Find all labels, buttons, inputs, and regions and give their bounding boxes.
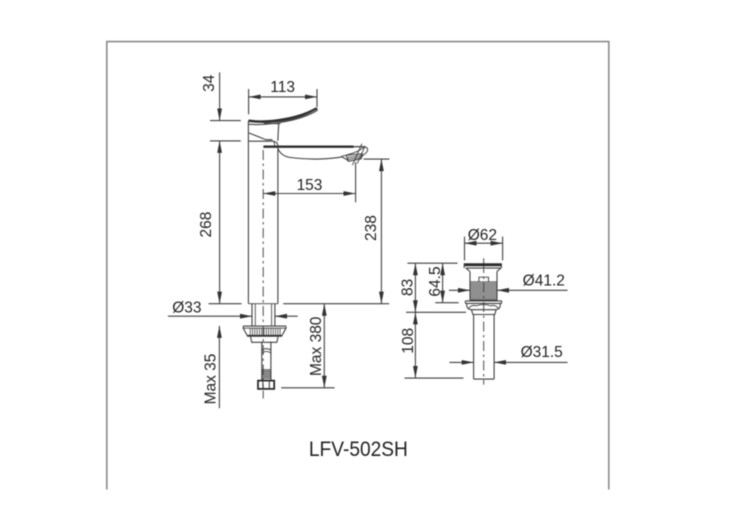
svg-text:Max 35: Max 35 [202, 354, 219, 405]
spout aerator [342, 144, 366, 166]
dimension Max 35 [218, 326, 220, 408]
drain top flange lid [464, 263, 502, 271]
dimension D31.5 [449, 361, 567, 363]
dimension D33 [168, 315, 298, 317]
mounting flange washer [243, 326, 286, 336]
dimension 64.5 [435, 263, 459, 302]
svg-text:83: 83 [400, 279, 417, 296]
dimension D41.2 [449, 289, 568, 291]
threaded stud [262, 342, 271, 381]
spout underside [278, 149, 349, 162]
svg-text:LFV-502SH: LFV-502SH [309, 438, 408, 461]
svg-text:Ø33: Ø33 [172, 299, 201, 316]
dimension D62 [465, 237, 503, 261]
dimension 108 [405, 312, 467, 378]
mounting sub-nut [251, 337, 278, 343]
svg-text:34: 34 [201, 74, 218, 92]
dimension 113 [249, 89, 317, 114]
dimension 83 [407, 263, 457, 312]
faucet handle lever blade [248, 108, 317, 124]
svg-text:108: 108 [400, 328, 417, 354]
faucet body column [247, 141, 249, 304]
faucet centerline [262, 150, 264, 389]
svg-text:64.5: 64.5 [427, 266, 444, 296]
svg-text:153: 153 [297, 177, 323, 194]
svg-text:Ø41.2: Ø41.2 [523, 273, 565, 290]
dimension 34 [210, 72, 241, 140]
svg-text:Max 380: Max 380 [308, 316, 325, 376]
drain threads [470, 283, 497, 299]
faucet shank [252, 304, 275, 326]
drain centerline [483, 258, 485, 263]
drain lower flange [465, 301, 501, 304]
drawing border frame [107, 42, 609, 490]
hex nut [258, 381, 274, 389]
drain tail adapter [472, 310, 497, 315]
dimension 153 [263, 162, 355, 202]
faucet handle base [248, 121, 278, 146]
counter line [209, 303, 242, 305]
svg-text:Ø31.5: Ø31.5 [521, 344, 563, 361]
drain lock nut [467, 303, 501, 309]
spout tip corner [364, 147, 368, 154]
faucet spout deck top [263, 145, 353, 147]
dimension Max 380 [281, 304, 334, 388]
svg-text:238: 238 [363, 215, 380, 241]
svg-text:Ø62: Ø62 [468, 227, 497, 244]
dimension 268 [219, 141, 221, 304]
dimension 238 [364, 159, 390, 304]
drain tailpipe [474, 315, 495, 380]
svg-text:113: 113 [270, 79, 295, 96]
drain body [470, 272, 497, 301]
svg-text:268: 268 [198, 212, 215, 238]
spout tip lower edge [362, 154, 365, 157]
